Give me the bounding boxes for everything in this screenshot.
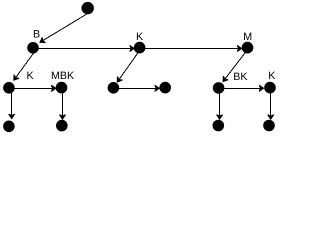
svg-text:M: M xyxy=(243,31,252,43)
svg-text:K: K xyxy=(136,31,144,43)
svg-text:MBK: MBK xyxy=(51,70,75,82)
svg-text:K: K xyxy=(27,70,35,82)
svg-text:K: K xyxy=(268,70,276,82)
svg-text:B: B xyxy=(33,29,40,41)
svg-text:BK: BK xyxy=(233,71,248,83)
